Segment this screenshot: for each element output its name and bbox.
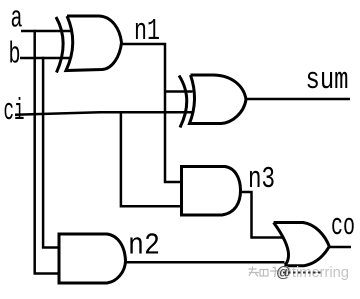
wire a tap (a down to AND U4 lower input) [35, 30, 60, 274]
xor-gate U2 (n1 xor ci -> sum) [179, 75, 246, 128]
wire n1 branch (n1 to XOR U2 upper input) [165, 90, 193, 93]
wire b (input b to XOR U1) [20, 57, 72, 60]
and-gate U3 (n1 and ci -> n3) [182, 167, 241, 216]
svg-text:a: a [11, 2, 23, 37]
watermark dotted strike line [283, 272, 322, 274]
svg-text:sum: sum [306, 63, 349, 98]
wire n2 (AND U4 output to OR U5 lower input) [126, 261, 285, 264]
xor-gate U1 (a xor b -> n1) [56, 16, 122, 73]
and-gate U4 (a and b -> n2) [59, 234, 126, 283]
wire co (OR U5 output to co) [329, 246, 351, 249]
svg-text:b: b [9, 38, 21, 73]
svg-text:co: co [331, 209, 355, 244]
wire b tap (b down to AND U4 upper input) [43, 57, 59, 248]
wire ci tap (ci down to AND U3 lower input) [121, 113, 182, 206]
watermark zhihu logo text [249, 267, 269, 277]
wire sum (XOR U2 output to sum) [246, 98, 350, 101]
svg-text:n2: n2 [128, 229, 160, 264]
wire n1 (XOR U1 output right, down, to AND U3 upper input) [122, 44, 182, 182]
wire n3 (AND U3 output right, down, to OR U5 upper input) [239, 192, 283, 238]
svg-text:ci: ci [4, 94, 25, 129]
wire ci (carry-in to XOR U2) [15, 112, 194, 115]
wire a (input a to XOR U1) [21, 30, 72, 33]
or-gate U5 (n3 or n2 -> co) [274, 223, 330, 266]
